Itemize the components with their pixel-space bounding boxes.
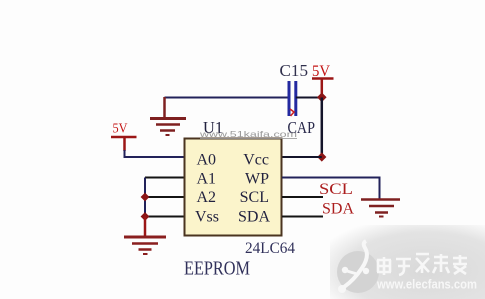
svg-text:SDA: SDA	[322, 201, 355, 218]
wire Vss pin	[145, 216, 185, 218]
svg-text:Vcc: Vcc	[243, 152, 269, 169]
wire SDA stub	[282, 216, 323, 218]
watermark elecfans (bottom-right)	[330, 225, 485, 299]
svg-text:SCL: SCL	[240, 189, 269, 206]
chinese glyph blobs	[377, 254, 467, 275]
svg-text:www.51kaifa.com: www.51kaifa.com	[199, 129, 297, 139]
svg-text:A1: A1	[197, 171, 217, 188]
junction dot at cap/5V	[317, 93, 327, 103]
wire vertical 5V rail down to Vcc	[321, 98, 324, 158]
ground top-left	[150, 97, 186, 135]
ground right	[361, 200, 400, 217]
junction dot at Vcc	[317, 152, 326, 161]
capacitor C15	[289, 81, 296, 116]
svg-text:EEPROM: EEPROM	[184, 258, 250, 280]
svg-text:www.elecfans.com: www.elecfans.com	[376, 277, 477, 292]
svg-text:5V: 5V	[113, 122, 128, 137]
svg-text:24LC64: 24LC64	[245, 240, 295, 257]
power 5V left	[111, 122, 137, 152]
wire top horizontal (ground to cap)	[165, 97, 288, 99]
svg-text:A0: A0	[197, 152, 217, 169]
svg-text:SCL: SCL	[319, 181, 353, 198]
svg-text:C15: C15	[280, 61, 309, 80]
IC U1 24LC64	[185, 139, 282, 236]
logo circle	[337, 251, 379, 293]
svg-text:Vss: Vss	[195, 209, 219, 226]
wire A0 pin from 5V	[125, 150, 185, 157]
svg-text:SDA: SDA	[238, 209, 270, 226]
wire A2 pin	[145, 196, 185, 198]
wire WP pin to right ground	[282, 178, 380, 199]
svg-text:A2: A2	[197, 189, 217, 206]
wire Vcc pin	[282, 156, 322, 158]
wire cap right plate to vertical	[296, 97, 322, 99]
junction dot A2	[141, 193, 150, 202]
wire SCL stub	[282, 196, 323, 198]
ground bottom-left	[124, 237, 166, 254]
wire red down to ground	[144, 217, 147, 237]
junction dot Vss	[141, 212, 150, 221]
wire A1 pin	[145, 177, 185, 179]
wire left vertical bus	[144, 178, 146, 218]
power 5V top-right	[312, 63, 334, 94]
svg-text:WP: WP	[245, 171, 269, 188]
